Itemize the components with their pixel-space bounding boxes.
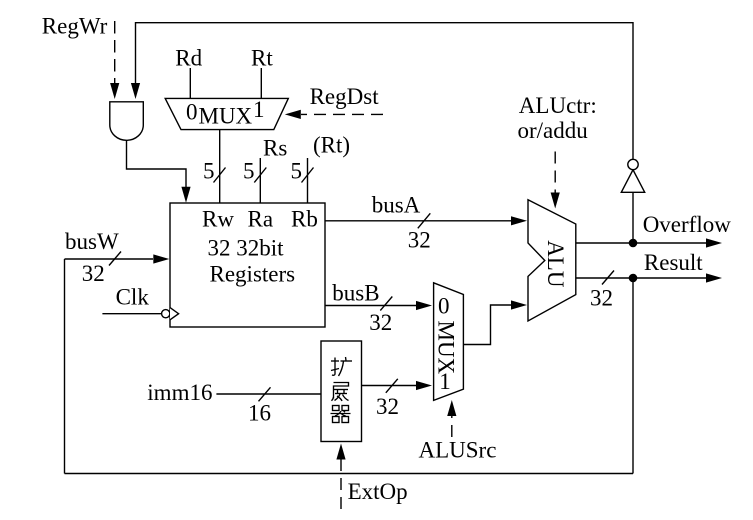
bus width 32 (busB) bbox=[380, 297, 392, 311]
wire: (Rt) into Rb port bbox=[307, 158, 309, 203]
wire: Overflow output bbox=[576, 242, 706, 244]
inverter bubble bbox=[628, 159, 638, 169]
svg-text:busW: busW bbox=[65, 229, 119, 254]
wire: Result output bbox=[576, 277, 706, 279]
wire: RegDst dashed control into mux bbox=[301, 113, 383, 115]
inverter triangle bbox=[621, 170, 644, 193]
svg-text:RegWr: RegWr bbox=[42, 14, 108, 39]
svg-text:RegDst: RegDst bbox=[310, 84, 380, 109]
wire: ExtOp dashed control bbox=[340, 458, 342, 509]
clock edge triangle bbox=[170, 308, 179, 320]
svg-text:0: 0 bbox=[186, 100, 198, 125]
wire: ALUSrc dashed control bbox=[451, 416, 453, 437]
svg-text:32: 32 bbox=[590, 286, 613, 311]
bus width 5 (Ra) bbox=[254, 168, 266, 183]
wire: busA to ALU bbox=[325, 220, 511, 222]
bus width 32 (busA) bbox=[418, 213, 431, 228]
svg-text:busB: busB bbox=[332, 281, 379, 306]
svg-text:Registers: Registers bbox=[210, 261, 296, 286]
svg-text:5: 5 bbox=[243, 159, 255, 184]
svg-text:busA: busA bbox=[372, 193, 421, 218]
svg-text:MUX: MUX bbox=[434, 321, 459, 375]
bus width 16 bbox=[259, 387, 271, 401]
mux U3 ALUSrc select bbox=[434, 283, 464, 401]
wire: busB to ALUSrc mux input 0 bbox=[325, 305, 416, 307]
extender block bbox=[321, 341, 362, 442]
svg-text:32: 32 bbox=[408, 228, 431, 253]
wire: extender output to ALUSrc mux input 1 bbox=[362, 385, 417, 387]
svg-text:ALUctr:: ALUctr: bbox=[519, 93, 597, 118]
svg-text:Rw: Rw bbox=[202, 207, 234, 232]
svg-text:5: 5 bbox=[203, 159, 215, 184]
svg-text:Rb: Rb bbox=[291, 207, 318, 232]
register file 32x32 bbox=[170, 203, 325, 327]
svg-text:32: 32 bbox=[376, 394, 399, 419]
svg-text:(Rt): (Rt) bbox=[313, 133, 350, 158]
svg-text:Overflow: Overflow bbox=[643, 212, 732, 237]
wire: ALUSrc mux output to ALU lower input bbox=[463, 305, 511, 345]
svg-text:32: 32 bbox=[369, 310, 392, 335]
wire: Result feedback right riser bbox=[632, 278, 634, 474]
wire: Rs into Ra port bbox=[259, 158, 261, 203]
svg-text:32: 32 bbox=[82, 261, 105, 286]
svg-text:Clk: Clk bbox=[116, 284, 150, 309]
wire: Rd into mux input 0 bbox=[189, 68, 191, 98]
svg-text:0: 0 bbox=[438, 294, 450, 319]
svg-text:16: 16 bbox=[248, 401, 271, 426]
AND gate (write enable) bbox=[110, 102, 144, 140]
wire: mux output to Rw port bbox=[219, 130, 221, 203]
ALU bbox=[528, 200, 576, 321]
svg-text:ExtOp: ExtOp bbox=[348, 479, 408, 504]
clock bubble bbox=[162, 310, 170, 318]
svg-text:32 32bit: 32 32bit bbox=[208, 235, 285, 260]
wire: feedback bottom run bbox=[65, 473, 634, 475]
svg-text:or/addu: or/addu bbox=[518, 118, 589, 143]
label zhan (spread) char 2 bbox=[332, 383, 349, 402]
mux U2 RegDst select bbox=[165, 98, 288, 129]
svg-text:Rs: Rs bbox=[263, 136, 287, 161]
wire: imm16 into extender bbox=[216, 393, 321, 395]
junction: inverter tap on Overflow bbox=[629, 239, 638, 248]
wire: ALUctr dashed control into ALU bbox=[554, 152, 556, 195]
wire: busW into Registers bbox=[65, 258, 154, 260]
svg-text:1: 1 bbox=[439, 369, 451, 394]
svg-text:Result: Result bbox=[644, 250, 703, 275]
wire: RegWr dashed control into AND gate bbox=[114, 21, 116, 84]
label kuo (extend) char 1 bbox=[331, 357, 352, 376]
svg-text:imm16: imm16 bbox=[147, 380, 212, 405]
svg-text:ALUSrc: ALUSrc bbox=[419, 438, 497, 463]
junction: Result feedback tap bbox=[629, 274, 638, 283]
wire: Overflow up to inverter bbox=[632, 192, 634, 243]
wire: Rt into mux input 1 bbox=[260, 68, 262, 98]
svg-text:1: 1 bbox=[253, 97, 265, 122]
svg-text:Ra: Ra bbox=[248, 207, 274, 232]
label qi (device) char 3 bbox=[331, 406, 351, 423]
wire: top feedback from inverter output to AND gate input bbox=[136, 23, 634, 160]
svg-text:MUX: MUX bbox=[199, 104, 253, 129]
wire: Clk input bbox=[102, 313, 161, 315]
wire: AND gate output to Registers write port bbox=[127, 140, 187, 188]
svg-text:5: 5 bbox=[291, 159, 303, 184]
bus width 5 (Rb) bbox=[302, 168, 314, 183]
bus width 32 (extender out) bbox=[386, 379, 398, 393]
svg-text:Rt: Rt bbox=[251, 46, 273, 71]
svg-text:ALU: ALU bbox=[543, 240, 568, 288]
wire: feedback left riser bbox=[64, 259, 66, 474]
svg-text:Rd: Rd bbox=[175, 46, 202, 71]
bus width 5 (Rw) bbox=[214, 168, 226, 183]
bus width 32 (Result) bbox=[602, 271, 614, 285]
bus width 32 (busW) bbox=[109, 252, 121, 266]
